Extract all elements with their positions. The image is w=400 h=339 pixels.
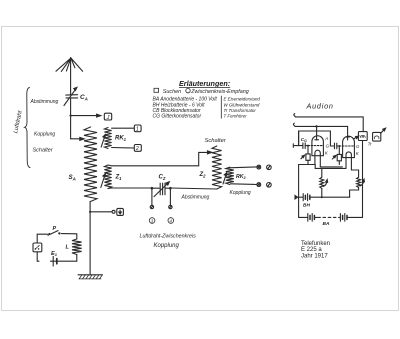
node CZ left <box>151 187 154 190</box>
legend mode squares line <box>154 88 249 95</box>
wire rheostat r1 bottom <box>321 188 323 197</box>
node grid V2 <box>338 145 340 147</box>
capacitor CA (variable antenna capacitor) <box>64 87 78 105</box>
terminal circle at box <box>112 210 115 213</box>
battery BA <box>299 214 363 222</box>
svg-text:Audion: Audion <box>306 102 334 111</box>
wire CZ left terminal drop <box>151 188 153 205</box>
resistor W2 (grid leak) <box>337 146 341 165</box>
arrow r2 <box>360 179 364 186</box>
wire arrow tap into SA <box>71 137 85 140</box>
svg-text:A: A <box>324 136 328 141</box>
arrow into Z2 <box>208 151 212 154</box>
wire buzzer loop <box>37 234 77 262</box>
svg-text:Luftdraht-Zwischenkreis: Luftdraht-Zwischenkreis <box>140 234 197 240</box>
svg-text:RK2: RK2 <box>236 174 247 180</box>
wire grid V1 dashes <box>308 145 323 147</box>
terminal ring 2 <box>267 183 272 188</box>
coil Z1 <box>104 165 111 189</box>
node ground-lead junction <box>89 211 91 213</box>
battery BH <box>299 194 350 201</box>
legend divider <box>220 96 222 118</box>
svg-text:E Eisenwiderstand: E Eisenwiderstand <box>224 97 261 102</box>
svg-text:SA: SA <box>69 174 76 181</box>
arrow RK1 slider <box>101 135 105 147</box>
wire top line 2 <box>293 123 347 126</box>
svg-text:Luftdraht: Luftdraht <box>13 110 24 134</box>
node CZ right <box>169 187 172 190</box>
wire junction to switch box J <box>71 114 101 117</box>
resistor W1 (grid leak) <box>306 146 310 165</box>
wire RK1 tap to box 2 <box>112 147 134 150</box>
svg-text:RK1: RK1 <box>115 136 127 142</box>
svg-text:K: K <box>325 150 329 155</box>
svg-text:Suchen: Suchen <box>163 89 181 95</box>
wire input terminal V1 <box>293 144 302 148</box>
coil Z2 <box>212 146 222 189</box>
svg-text:Kopplung: Kopplung <box>230 190 251 196</box>
svg-text:W Glühwiderstand: W Glühwiderstand <box>224 102 260 107</box>
svg-text:Z1: Z1 <box>115 175 123 181</box>
coil RK2 <box>226 167 234 184</box>
arrow Z1 slider <box>101 174 106 188</box>
svg-text:BH: BH <box>303 203 310 209</box>
buzzer box <box>33 243 42 252</box>
svg-text:T Fernhörer: T Fernhörer <box>224 114 248 119</box>
wire antenna lead <box>70 58 72 95</box>
svg-text:E1: E1 <box>51 251 58 257</box>
svg-text:BA: BA <box>323 221 330 227</box>
ground (earth) <box>78 275 103 279</box>
svg-text:Tr: Tr <box>368 142 372 147</box>
terminal circle left <box>150 205 153 208</box>
capacitor CG1 <box>303 143 308 149</box>
capacitor CZ (variable) <box>152 182 171 197</box>
tube V1 filament <box>315 150 320 167</box>
coil L <box>72 239 82 255</box>
wire CZ to Z2 bottom <box>170 188 216 189</box>
svg-text:E 225 a: E 225 a <box>301 247 322 253</box>
wire Tr to BA <box>362 141 364 218</box>
svg-text:Erläuterungen:: Erläuterungen: <box>179 79 231 88</box>
svg-text:CZ: CZ <box>159 175 166 181</box>
svg-text:J: J <box>106 115 110 121</box>
svg-text:K: K <box>356 151 360 156</box>
node anode V1 <box>315 125 317 127</box>
svg-text:L: L <box>66 245 70 251</box>
capacitor CG2 <box>330 143 339 149</box>
svg-text:Abstimmung: Abstimmung <box>30 99 59 105</box>
arrow r1 <box>323 180 327 187</box>
svg-text:CA: CA <box>80 94 88 101</box>
svg-text:CG Gitterkondensator: CG Gitterkondensator <box>153 114 202 120</box>
wire RK2 bottom tap <box>231 183 257 186</box>
wire RK2 top tap <box>229 166 257 169</box>
headphone T box <box>373 128 386 141</box>
wire CA to junction <box>70 98 72 139</box>
tube V2 filament <box>346 152 351 170</box>
svg-text:Telefunken: Telefunken <box>301 241 330 247</box>
wire anode V1 drop <box>316 126 318 139</box>
terminal BH tick <box>295 195 298 199</box>
coil SA <box>84 127 97 202</box>
wire grid V2 dashes <box>339 145 353 147</box>
node grid V1 <box>307 145 309 147</box>
svg-text:1: 1 <box>136 127 139 133</box>
tube V2 envelope <box>343 136 355 157</box>
wire anode V2 drop <box>347 126 349 137</box>
svg-text:G: G <box>356 144 360 149</box>
svg-text:Schalter: Schalter <box>33 148 54 154</box>
wire anode V2 to Tr <box>354 136 359 139</box>
node antenna junction <box>70 115 72 117</box>
tube V1 envelope <box>312 136 324 156</box>
terminal number 3 <box>149 218 155 224</box>
terminal circle right <box>169 205 172 208</box>
svg-text:CG: CG <box>301 137 307 143</box>
wire Z1 top to Z2 switch <box>108 152 208 165</box>
svg-text:Kopplung: Kopplung <box>154 243 180 249</box>
svg-text:Schalter: Schalter <box>205 138 227 144</box>
battery E1 <box>53 256 57 266</box>
switch-position box down-arrow <box>117 208 124 215</box>
coil RK1 <box>104 128 111 149</box>
wire heater bus A <box>299 131 346 168</box>
rheostat r2 <box>357 177 361 187</box>
wire over-coupling <box>299 131 331 146</box>
tube V1 anode plate <box>315 139 319 141</box>
switch-position box 1 <box>134 125 141 133</box>
terminal X bottom <box>257 183 261 187</box>
wire CZ right terminal drop <box>169 188 171 205</box>
wire r2 top <box>351 170 358 177</box>
wire heater bus B <box>315 165 343 167</box>
wire rheostat r1 top <box>321 168 323 177</box>
svg-text:2: 2 <box>135 146 139 152</box>
wire top line 1 <box>294 114 363 132</box>
switch-position box J <box>104 113 111 121</box>
svg-text:P: P <box>53 226 57 232</box>
wire RK1 tap to box 1 <box>112 127 134 129</box>
arrow W2 <box>332 155 336 159</box>
wire junction to box <box>90 211 112 213</box>
node r1 junction <box>321 196 323 198</box>
terminal number 4 <box>168 218 174 224</box>
wire BH right to r2 <box>350 188 359 198</box>
arrow RK2 slider <box>223 173 227 184</box>
switch-position box 2 <box>134 145 141 153</box>
terminal ring 1 <box>267 165 272 170</box>
svg-text:Jahr 1917: Jahr 1917 <box>301 254 328 260</box>
brace Luftdraht group <box>25 88 30 168</box>
wire SA to ground <box>89 202 91 276</box>
svg-text:Zwischenkreis-Empfang: Zwischenkreis-Empfang <box>190 89 249 95</box>
transformer Tr box <box>358 132 367 141</box>
wire heater left drop <box>298 165 300 218</box>
terminal X top <box>257 165 261 169</box>
wire Z1 bottom bus <box>108 187 152 190</box>
svg-text:Z2: Z2 <box>199 172 207 178</box>
arrow W1 <box>301 155 305 159</box>
rheostat r1 <box>320 177 324 188</box>
antenna <box>56 58 83 71</box>
svg-text:Abstimmung: Abstimmung <box>181 195 210 201</box>
svg-text:Tr Transformator: Tr Transformator <box>224 108 257 113</box>
svg-text:G: G <box>326 144 330 149</box>
tube V2 anode plate <box>346 137 350 140</box>
svg-text:Kopplung: Kopplung <box>34 132 55 138</box>
switch P contacts <box>48 231 61 236</box>
